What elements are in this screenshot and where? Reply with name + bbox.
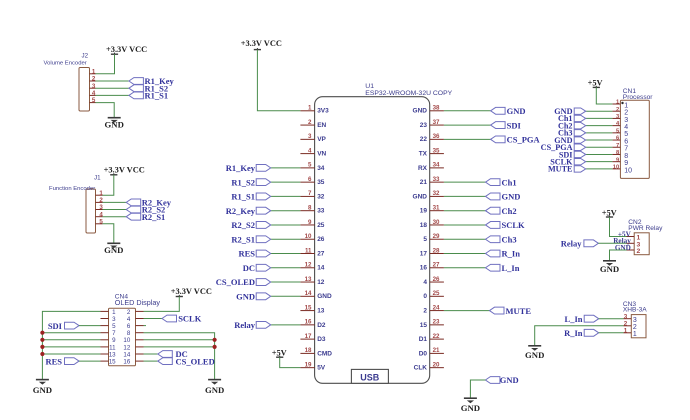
svg-text:14: 14 bbox=[305, 290, 312, 297]
wire bbox=[96, 103, 115, 118]
svg-text:USB: USB bbox=[360, 373, 380, 383]
svg-text:38: 38 bbox=[433, 105, 440, 112]
svg-text:1: 1 bbox=[92, 68, 96, 75]
U1 pin 25 (0) bbox=[423, 290, 444, 300]
svg-text:31: 31 bbox=[433, 204, 440, 211]
svg-text:12: 12 bbox=[305, 262, 312, 269]
U1 pin 13 (12) bbox=[300, 276, 324, 286]
svg-text:1: 1 bbox=[633, 331, 637, 338]
J2 pin 5 bbox=[90, 97, 96, 104]
svg-text:20: 20 bbox=[433, 361, 440, 368]
wire bbox=[599, 332, 624, 334]
junction bbox=[40, 345, 44, 349]
wire bbox=[271, 195, 301, 197]
svg-text:ESP32-WROOM-32U COPY: ESP32-WROOM-32U COPY bbox=[365, 90, 452, 97]
connector J2 Volume Encoder bbox=[79, 68, 90, 112]
net flag MUTE bbox=[548, 165, 586, 174]
svg-text:2: 2 bbox=[127, 309, 131, 316]
svg-text:1: 1 bbox=[112, 309, 116, 316]
U1 pin 20 (CLK) bbox=[414, 361, 444, 371]
CN4 pin 12 bbox=[123, 344, 143, 351]
net flag CS_OLED bbox=[158, 356, 215, 366]
svg-text:+3.3V VCC: +3.3V VCC bbox=[241, 39, 282, 48]
svg-text:16: 16 bbox=[123, 359, 130, 366]
CN1 pin 3 bbox=[612, 114, 628, 124]
svg-text:R1_S2: R1_S2 bbox=[231, 177, 255, 187]
J1 pin 5 bbox=[96, 218, 104, 225]
U1 pin 14 (GND) bbox=[300, 290, 332, 300]
net flag GND bbox=[554, 107, 585, 116]
svg-text:4: 4 bbox=[423, 279, 427, 286]
svg-text:2: 2 bbox=[624, 321, 628, 328]
wire bbox=[103, 216, 127, 218]
CN4 pin 1 bbox=[101, 309, 117, 316]
svg-text:DC: DC bbox=[243, 263, 255, 273]
CN4 pin 5 bbox=[101, 323, 117, 330]
svg-text:R2_S2: R2_S2 bbox=[231, 220, 255, 230]
svg-text:12: 12 bbox=[123, 344, 130, 351]
svg-text:3: 3 bbox=[99, 204, 103, 211]
wire bbox=[586, 110, 613, 112]
svg-text:5: 5 bbox=[112, 323, 116, 330]
CN3 pin 3 bbox=[624, 313, 637, 324]
svg-text:7: 7 bbox=[616, 143, 619, 149]
svg-text:21: 21 bbox=[420, 179, 428, 186]
U1 pin 36 (22) bbox=[420, 133, 444, 143]
CN2 pin 3 (Relay) bbox=[613, 237, 640, 248]
svg-text:2: 2 bbox=[423, 307, 427, 314]
wire bbox=[610, 250, 627, 261]
ground bbox=[105, 118, 124, 130]
U1 pin 28 (17) bbox=[420, 247, 444, 257]
svg-text:9: 9 bbox=[308, 219, 312, 226]
svg-text:28: 28 bbox=[433, 247, 440, 254]
net flag SDI bbox=[48, 321, 79, 331]
svg-text:2: 2 bbox=[92, 76, 96, 83]
wire bbox=[586, 139, 613, 141]
svg-text:GND: GND bbox=[317, 293, 332, 300]
wire bbox=[144, 346, 215, 348]
net flag GND (bottom center) bbox=[485, 375, 518, 385]
U1 pin 11 (27) bbox=[300, 247, 324, 257]
wire bbox=[42, 346, 100, 348]
svg-text:SDI: SDI bbox=[48, 321, 63, 331]
svg-text:GND: GND bbox=[461, 403, 480, 413]
wire CN4 right bus bbox=[144, 333, 215, 380]
CN4 pin 9 bbox=[101, 337, 117, 344]
svg-text:5: 5 bbox=[423, 236, 427, 243]
CN1 pin 1 marker dot bbox=[621, 102, 623, 104]
svg-text:10: 10 bbox=[305, 233, 312, 240]
wire bbox=[444, 224, 486, 226]
U1 pin 31 (19) bbox=[420, 204, 444, 214]
svg-text:27: 27 bbox=[433, 262, 440, 269]
wire bbox=[586, 125, 613, 127]
svg-text:4: 4 bbox=[99, 211, 103, 218]
connector CN2 PWR Relay bbox=[634, 233, 649, 255]
power symbol +5V bbox=[602, 209, 617, 218]
svg-text:RX: RX bbox=[418, 165, 428, 172]
U1 pin 16 (D2) bbox=[300, 319, 325, 329]
svg-text:J2: J2 bbox=[82, 53, 89, 60]
junction bbox=[213, 345, 217, 349]
net flag R2_S1 bbox=[126, 212, 165, 222]
svg-text:35: 35 bbox=[317, 179, 325, 186]
U1 pin 9 (25) bbox=[300, 219, 324, 229]
svg-text:14: 14 bbox=[317, 265, 325, 272]
CN4 pin 16 bbox=[123, 359, 143, 366]
J2 pin 2 bbox=[90, 76, 96, 83]
svg-text:+3.3V VCC: +3.3V VCC bbox=[106, 45, 147, 54]
svg-text:13: 13 bbox=[305, 276, 312, 283]
svg-text:29: 29 bbox=[433, 233, 440, 240]
net flag GND bbox=[554, 136, 585, 145]
net flag SCLK bbox=[486, 220, 526, 230]
svg-text:21: 21 bbox=[433, 347, 440, 354]
net flag Relay bbox=[234, 320, 270, 330]
wire bbox=[586, 168, 613, 170]
svg-text:13: 13 bbox=[109, 351, 116, 358]
net flag R1_S2 bbox=[231, 177, 270, 187]
svg-text:R_In: R_In bbox=[502, 249, 521, 259]
svg-text:PWR Relay: PWR Relay bbox=[628, 225, 663, 232]
svg-text:J1: J1 bbox=[94, 175, 101, 182]
junction bbox=[213, 338, 217, 342]
svg-text:1: 1 bbox=[624, 328, 628, 335]
svg-text:VN: VN bbox=[317, 151, 326, 158]
wire bbox=[271, 210, 301, 212]
svg-text:EN: EN bbox=[317, 122, 326, 129]
svg-text:5: 5 bbox=[92, 97, 96, 104]
net flag DC bbox=[243, 263, 271, 273]
net flag GND bbox=[491, 106, 526, 116]
svg-text:16: 16 bbox=[420, 265, 428, 272]
U1 pin 6 (35) bbox=[300, 176, 324, 186]
svg-text:MUTE: MUTE bbox=[506, 306, 532, 316]
U1 pin 26 (4) bbox=[423, 276, 444, 286]
net flag R1_S1 bbox=[129, 91, 168, 101]
U1 pin 37 (23) bbox=[420, 119, 444, 129]
svg-text:GND: GND bbox=[525, 350, 544, 360]
svg-text:5V: 5V bbox=[317, 365, 326, 372]
svg-text:+3.3V VCC: +3.3V VCC bbox=[171, 287, 212, 296]
svg-text:1: 1 bbox=[99, 190, 103, 197]
wire bbox=[444, 267, 486, 269]
svg-text:3V3: 3V3 bbox=[317, 108, 329, 115]
svg-text:L_In: L_In bbox=[565, 314, 583, 324]
svg-text:Ch1: Ch1 bbox=[502, 177, 517, 187]
svg-text:2: 2 bbox=[308, 119, 312, 126]
U1 pin 8 (33) bbox=[300, 204, 324, 214]
svg-text:7: 7 bbox=[624, 146, 628, 153]
J1 pin 1 bbox=[96, 190, 104, 197]
wire bbox=[271, 281, 301, 283]
svg-text:0: 0 bbox=[423, 293, 427, 300]
CN4 pin 7 bbox=[101, 330, 117, 337]
svg-text:30: 30 bbox=[433, 219, 440, 226]
U1 pin 5 (34) bbox=[300, 162, 324, 172]
svg-text:R2_S1: R2_S1 bbox=[231, 234, 255, 244]
U1 pin 4 (VN) bbox=[300, 147, 326, 157]
wire bbox=[586, 146, 613, 148]
svg-text:GND: GND bbox=[205, 385, 224, 395]
J2 pin 1 bbox=[90, 68, 96, 75]
svg-text:33: 33 bbox=[317, 208, 325, 215]
svg-text:37: 37 bbox=[433, 119, 440, 126]
power symbol +3.3V VCC bbox=[104, 166, 145, 175]
net flag SDI bbox=[491, 120, 522, 130]
wire bbox=[444, 238, 486, 240]
wire bbox=[103, 224, 114, 244]
net flag R1_S2 bbox=[129, 83, 168, 93]
wire CN3 pin2 to ground bbox=[535, 326, 624, 346]
svg-text:25: 25 bbox=[317, 222, 325, 229]
wire bbox=[586, 132, 613, 134]
connector CN3 XHB-3A bbox=[631, 315, 646, 338]
wire bbox=[599, 318, 624, 320]
svg-text:9: 9 bbox=[112, 337, 116, 344]
svg-text:RES: RES bbox=[45, 356, 62, 366]
svg-text:5: 5 bbox=[624, 131, 628, 138]
svg-text:4: 4 bbox=[624, 124, 628, 131]
svg-text:9: 9 bbox=[624, 160, 628, 167]
wire bbox=[271, 253, 301, 255]
wire bbox=[144, 360, 158, 362]
ground bbox=[461, 398, 480, 413]
svg-text:VP: VP bbox=[317, 136, 326, 143]
wire bbox=[96, 80, 129, 82]
U1 pin 1 (3V3) bbox=[300, 105, 329, 115]
CN3 pin 1 bbox=[624, 328, 637, 339]
svg-text:Ch3: Ch3 bbox=[502, 234, 517, 244]
CN4 pin 4 bbox=[127, 316, 144, 323]
J1 pin 3 bbox=[96, 204, 104, 211]
junction bbox=[40, 338, 44, 342]
svg-text:7: 7 bbox=[308, 190, 312, 197]
CN4 pin 14 bbox=[123, 351, 143, 358]
wire CN4 left bus bbox=[42, 311, 100, 379]
U1 pin 23 (15) bbox=[420, 319, 444, 329]
wire bbox=[42, 332, 100, 334]
wire bbox=[444, 210, 486, 212]
svg-text:11: 11 bbox=[305, 247, 312, 254]
svg-text:2: 2 bbox=[637, 248, 641, 255]
net flag R1_Key bbox=[129, 76, 175, 86]
net flag RES bbox=[238, 249, 270, 259]
net flag DC bbox=[158, 349, 188, 359]
CN2 pin 1 (+5V) bbox=[618, 230, 641, 241]
svg-text:L_In: L_In bbox=[502, 263, 520, 273]
svg-text:GND: GND bbox=[33, 385, 52, 395]
svg-text:23: 23 bbox=[420, 122, 428, 129]
net flag GND bbox=[236, 292, 271, 302]
U1 pin 3 (VP) bbox=[300, 133, 326, 143]
net flag R2_S2 bbox=[231, 220, 270, 230]
svg-text:GND: GND bbox=[413, 193, 428, 200]
svg-text:33: 33 bbox=[433, 176, 440, 183]
svg-text:32: 32 bbox=[317, 193, 325, 200]
junction bbox=[40, 331, 44, 335]
svg-text:34: 34 bbox=[317, 165, 325, 172]
svg-text:32: 32 bbox=[433, 190, 440, 197]
svg-text:10: 10 bbox=[123, 337, 130, 344]
wire bbox=[444, 110, 491, 112]
svg-text:CMD: CMD bbox=[317, 350, 332, 357]
svg-text:3: 3 bbox=[112, 316, 116, 323]
USB connector box bbox=[351, 369, 388, 383]
wire bbox=[144, 325, 147, 327]
wire bbox=[444, 181, 486, 183]
wire bbox=[271, 224, 301, 226]
U1 pin 29 (5) bbox=[423, 233, 444, 243]
J2 pin 3 bbox=[90, 83, 96, 90]
svg-text:SCLK: SCLK bbox=[178, 314, 202, 324]
svg-text:RES: RES bbox=[238, 249, 255, 259]
net flag CS_OLED bbox=[216, 277, 271, 287]
wire bbox=[79, 360, 101, 362]
CN1 pin 5 bbox=[612, 128, 628, 138]
svg-text:GND: GND bbox=[105, 120, 124, 130]
ground bbox=[33, 380, 52, 395]
U1 pin 35 (TX) bbox=[419, 147, 444, 157]
CN1 pin 2 bbox=[612, 107, 628, 117]
CN3 pin 2 bbox=[624, 321, 637, 332]
wire bbox=[444, 195, 486, 197]
svg-text:R2_S1: R2_S1 bbox=[142, 212, 166, 222]
CN1 pin 7 bbox=[612, 143, 628, 153]
svg-text:6: 6 bbox=[127, 323, 131, 330]
svg-text:10: 10 bbox=[613, 164, 619, 170]
wire bbox=[444, 138, 491, 140]
wire bbox=[144, 353, 158, 355]
svg-text:OLED Display: OLED Display bbox=[115, 298, 161, 307]
power symbol +5V bbox=[272, 348, 287, 357]
svg-text:13: 13 bbox=[317, 307, 325, 314]
wire +3.3V VCC bbox=[103, 175, 114, 195]
net flag R1_S1 bbox=[231, 192, 270, 202]
U1 pin 34 (RX) bbox=[418, 162, 444, 172]
svg-text:Volume Encoder: Volume Encoder bbox=[44, 60, 87, 66]
svg-text:+5V: +5V bbox=[602, 209, 617, 218]
wire bbox=[598, 242, 626, 244]
net flag GND bbox=[486, 192, 521, 202]
connector CN4 OLED Display bbox=[109, 308, 136, 366]
CN4 pin 10 bbox=[123, 337, 143, 344]
svg-text:6: 6 bbox=[308, 176, 312, 183]
svg-text:GND: GND bbox=[600, 264, 619, 274]
svg-text:5: 5 bbox=[308, 162, 312, 169]
CN4 pin 2 bbox=[127, 309, 144, 316]
wire bbox=[271, 267, 301, 269]
net flag Ch3 bbox=[558, 129, 586, 138]
svg-text:R1_S1: R1_S1 bbox=[231, 192, 255, 202]
svg-text:SDI: SDI bbox=[507, 120, 522, 130]
svg-text:8: 8 bbox=[308, 204, 312, 211]
svg-text:3: 3 bbox=[624, 117, 628, 124]
wire +3.3V VCC bbox=[144, 297, 180, 312]
svg-text:R_In: R_In bbox=[564, 328, 583, 338]
U1 pin 2 (EN) bbox=[300, 119, 326, 129]
svg-text:GND: GND bbox=[104, 245, 123, 255]
svg-text:12: 12 bbox=[317, 279, 325, 286]
svg-text:14: 14 bbox=[123, 351, 130, 358]
wire +5V bbox=[596, 87, 612, 104]
wire +5V bbox=[280, 357, 301, 367]
net flag SCLK bbox=[162, 314, 202, 324]
net flag R2_Key bbox=[126, 198, 172, 208]
ground bbox=[104, 243, 123, 255]
net flag Ch1 bbox=[558, 114, 586, 123]
svg-text:CS_PGA: CS_PGA bbox=[507, 135, 541, 145]
power symbol +3.3V VCC bbox=[171, 287, 212, 297]
svg-text:35: 35 bbox=[433, 147, 440, 154]
net flag R_In bbox=[564, 328, 599, 338]
CN1 pin 8 bbox=[612, 150, 628, 160]
CN4 pin 15 bbox=[101, 359, 117, 366]
svg-text:R1_S1: R1_S1 bbox=[145, 91, 169, 101]
power symbol +3.3V VCC bbox=[241, 39, 282, 50]
svg-text:D3: D3 bbox=[317, 336, 326, 343]
svg-text:MUTE: MUTE bbox=[548, 165, 573, 174]
ground bbox=[600, 261, 619, 274]
wire bbox=[271, 324, 301, 326]
net flag RES bbox=[45, 356, 79, 366]
svg-text:11: 11 bbox=[109, 344, 116, 351]
U1 pin 33 (21) bbox=[420, 176, 444, 186]
svg-text:GND: GND bbox=[502, 192, 521, 202]
wire bbox=[144, 339, 215, 341]
J2 pin 4 bbox=[90, 90, 96, 97]
svg-text:Processor: Processor bbox=[623, 94, 653, 101]
wire +5V bbox=[610, 217, 627, 237]
svg-text:CS_OLED: CS_OLED bbox=[176, 356, 215, 366]
net flag Ch2 bbox=[558, 121, 586, 130]
svg-text:R2_Key: R2_Key bbox=[226, 206, 256, 216]
svg-text:D0: D0 bbox=[419, 350, 428, 357]
wire bbox=[103, 209, 127, 211]
net flag L_In bbox=[565, 314, 599, 324]
svg-text:25: 25 bbox=[433, 290, 440, 297]
svg-text:3: 3 bbox=[92, 83, 96, 90]
wire bbox=[444, 253, 486, 255]
CN1 pin 6 bbox=[612, 136, 628, 146]
connector CN1 Processor bbox=[620, 100, 649, 178]
J1 pin 4 bbox=[96, 211, 104, 218]
svg-text:27: 27 bbox=[317, 250, 325, 257]
CN1 pin 1 bbox=[612, 100, 628, 110]
ground bbox=[205, 380, 224, 395]
wire bbox=[79, 325, 101, 327]
wire bbox=[586, 153, 613, 155]
IC U1 ESP32-WROOM-32U COPY bbox=[315, 97, 430, 384]
net flag R2_Key bbox=[226, 206, 271, 216]
svg-text:10: 10 bbox=[624, 167, 632, 174]
svg-text:19: 19 bbox=[420, 208, 428, 215]
power symbol +5V bbox=[588, 79, 603, 88]
svg-text:17: 17 bbox=[420, 250, 428, 257]
svg-text:+3.3V VCC: +3.3V VCC bbox=[104, 166, 145, 175]
U1 pin 21 (D0) bbox=[419, 347, 444, 357]
svg-text:34: 34 bbox=[433, 162, 440, 169]
svg-text:4: 4 bbox=[127, 316, 131, 323]
svg-text:TX: TX bbox=[419, 151, 428, 158]
svg-text:GND: GND bbox=[507, 106, 526, 116]
svg-text:Relay: Relay bbox=[234, 320, 256, 330]
U1 pin 10 (26) bbox=[300, 233, 324, 243]
junction bbox=[40, 352, 44, 356]
svg-text:8: 8 bbox=[127, 330, 131, 337]
svg-text:26: 26 bbox=[317, 236, 325, 243]
